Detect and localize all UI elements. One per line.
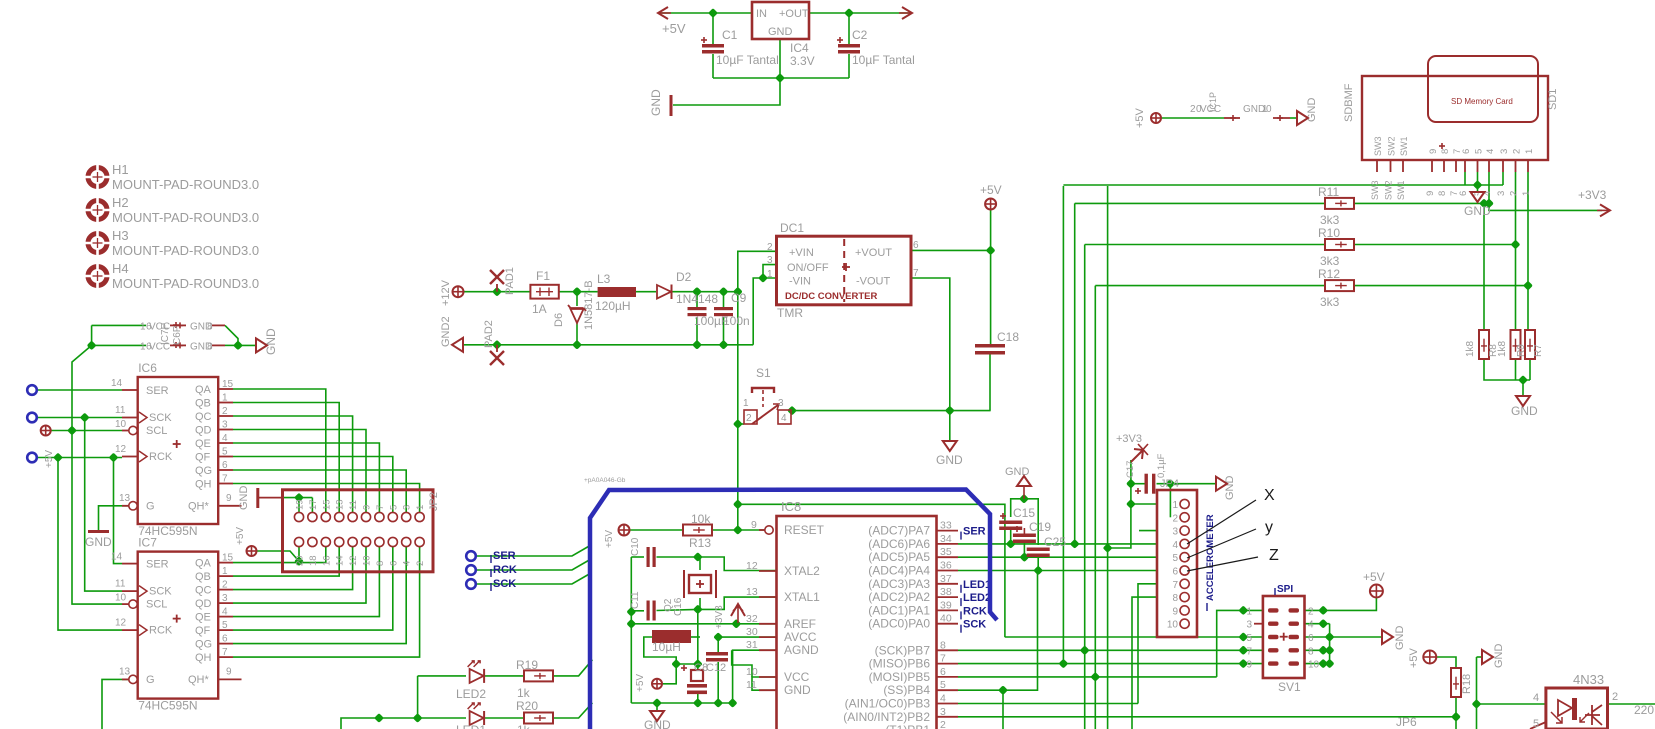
svg-text:R11: R11 [1318, 185, 1339, 199]
svg-text:12: 12 [348, 555, 359, 566]
svg-text:+12V: +12V [440, 279, 452, 306]
svg-text:(SCK)PB7: (SCK)PB7 [875, 643, 931, 657]
svg-text:31: 31 [746, 639, 758, 651]
svg-text:3: 3 [402, 505, 413, 510]
svg-text:L3: L3 [597, 272, 611, 286]
svg-text:PAD1: PAD1 [504, 267, 516, 295]
svg-text:5: 5 [388, 505, 399, 510]
svg-text:R20: R20 [516, 699, 538, 713]
svg-text:+5V: +5V [604, 530, 615, 548]
svg-text:+VOUT: +VOUT [855, 247, 892, 259]
svg-text:(ADC7)PA7: (ADC7)PA7 [868, 524, 930, 538]
svg-text:0,1µF: 0,1µF [1156, 453, 1167, 478]
svg-text:11: 11 [348, 500, 359, 510]
svg-text:SCK: SCK [149, 586, 172, 598]
svg-text:15: 15 [321, 499, 332, 510]
svg-text:16: 16 [321, 555, 332, 566]
svg-text:2: 2 [415, 561, 426, 566]
svg-text:R19: R19 [516, 658, 538, 672]
svg-text:SW3: SW3 [1370, 180, 1380, 200]
svg-text:R10: R10 [1318, 226, 1340, 240]
svg-text:1k: 1k [517, 686, 531, 700]
svg-text:GND: GND [784, 683, 811, 697]
svg-text:10: 10 [1308, 660, 1320, 671]
svg-text:QA: QA [195, 384, 212, 396]
svg-text:4: 4 [222, 607, 228, 618]
svg-text:C2: C2 [852, 28, 868, 42]
svg-text:RESET: RESET [784, 523, 825, 537]
svg-text:1: 1 [743, 398, 749, 409]
svg-text:LED1: LED1 [963, 579, 991, 591]
svg-text:+5V: +5V [662, 21, 686, 36]
svg-text:MOUNT-PAD-ROUND3.0: MOUNT-PAD-ROUND3.0 [112, 276, 259, 291]
svg-text:8: 8 [1172, 593, 1178, 604]
svg-text:9: 9 [751, 519, 757, 531]
svg-text:R13: R13 [689, 536, 711, 550]
svg-text:5: 5 [940, 679, 946, 691]
svg-text:GND2: GND2 [440, 316, 452, 347]
svg-text:14: 14 [111, 552, 123, 563]
svg-text:+5V: +5V [1408, 647, 1420, 668]
svg-text:RCK: RCK [493, 564, 517, 576]
svg-text:TMR: TMR [777, 306, 803, 320]
svg-text:(ADC6)PA6: (ADC6)PA6 [868, 537, 930, 551]
svg-text:(ADC2)PA2: (ADC2)PA2 [868, 590, 930, 604]
svg-text:2: 2 [1172, 513, 1178, 524]
svg-text:GND: GND [85, 535, 112, 549]
svg-text:MOUNT-PAD-ROUND3.0: MOUNT-PAD-ROUND3.0 [112, 210, 259, 225]
svg-text:C12: C12 [706, 662, 726, 674]
svg-text:6: 6 [1461, 149, 1472, 154]
svg-text:GND: GND [238, 486, 250, 511]
svg-text:XTAL1: XTAL1 [784, 590, 820, 604]
svg-text:0: 0 [1266, 104, 1272, 115]
svg-text:3: 3 [222, 593, 228, 604]
svg-text:1: 1 [415, 505, 426, 510]
svg-text:10: 10 [362, 555, 373, 566]
svg-text:1N5817-B: 1N5817-B [583, 280, 595, 330]
svg-text:IC6: IC6 [138, 361, 157, 375]
svg-text:33: 33 [940, 520, 952, 532]
svg-text:3: 3 [1499, 149, 1510, 154]
svg-text:QF: QF [195, 452, 211, 464]
svg-text:1A: 1A [532, 302, 547, 316]
svg-text:9: 9 [1425, 191, 1436, 196]
svg-text:+5V: +5V [980, 183, 1002, 197]
svg-text:3: 3 [1172, 527, 1178, 538]
svg-text:SW3: SW3 [1373, 136, 1383, 156]
svg-text:3: 3 [778, 398, 784, 409]
svg-text:12: 12 [115, 444, 127, 455]
svg-text:(AIN0/INT2)PB2: (AIN0/INT2)PB2 [843, 710, 930, 724]
svg-text:2: 2 [1612, 691, 1618, 703]
svg-text:10k: 10k [691, 512, 711, 526]
svg-text:H1: H1 [112, 162, 129, 177]
svg-text:(T1)PB1: (T1)PB1 [885, 723, 930, 729]
svg-text:AGND: AGND [784, 643, 819, 657]
svg-text:13: 13 [119, 493, 131, 504]
svg-text:+3V3: +3V3 [714, 605, 725, 629]
svg-text:IN: IN [756, 8, 767, 20]
svg-text:QB: QB [195, 571, 211, 583]
svg-text:7: 7 [222, 647, 228, 658]
svg-text:5: 5 [1172, 553, 1178, 564]
svg-text:+3V3: +3V3 [1578, 188, 1607, 202]
svg-text:9: 9 [1172, 606, 1178, 617]
svg-text:SCK: SCK [149, 412, 172, 424]
svg-text:SPI: SPI [1277, 584, 1293, 595]
svg-text:120µH: 120µH [595, 299, 631, 313]
svg-text:38: 38 [940, 586, 952, 598]
svg-text:2: 2 [1509, 191, 1520, 196]
svg-text:10: 10 [746, 666, 758, 678]
svg-text:+VIN: +VIN [789, 247, 814, 259]
svg-text:2: 2 [940, 719, 946, 729]
svg-text:R18: R18 [1461, 674, 1473, 694]
svg-text:4: 4 [1533, 692, 1539, 704]
svg-text:SCL: SCL [146, 599, 167, 611]
svg-text:GND: GND [1394, 626, 1406, 651]
svg-text:13: 13 [119, 667, 131, 678]
svg-text:QB: QB [195, 398, 211, 410]
svg-text:-VIN: -VIN [789, 276, 811, 288]
svg-text:SW2: SW2 [1384, 180, 1394, 200]
svg-text:5: 5 [1533, 718, 1539, 729]
svg-text:+pA0A046-Gb: +pA0A046-Gb [584, 477, 626, 484]
svg-text:3.3V: 3.3V [790, 54, 815, 68]
svg-text:13: 13 [746, 586, 758, 598]
svg-text:D2: D2 [676, 270, 692, 284]
svg-text:(SS)PB4: (SS)PB4 [883, 683, 930, 697]
svg-text:5: 5 [1246, 633, 1252, 644]
svg-text:8: 8 [1440, 149, 1451, 154]
svg-text:G: G [146, 501, 155, 513]
svg-text:(ADC3)PA3: (ADC3)PA3 [868, 577, 930, 591]
svg-text:1: 1 [1521, 191, 1532, 196]
svg-text:14: 14 [335, 555, 346, 566]
svg-text:4: 4 [222, 433, 228, 444]
svg-text:40: 40 [940, 613, 952, 625]
svg-text:SD1: SD1 [1547, 89, 1559, 110]
svg-text:100n: 100n [723, 314, 750, 328]
svg-text:C11: C11 [630, 591, 641, 609]
svg-text:X: X [1264, 487, 1275, 504]
svg-text:5: 5 [1474, 149, 1485, 154]
svg-text:3k3: 3k3 [1320, 295, 1340, 309]
svg-text:QD: QD [195, 425, 212, 437]
svg-text:C25: C25 [1044, 535, 1066, 549]
svg-text:39: 39 [940, 599, 952, 611]
svg-text:SCK: SCK [963, 619, 986, 631]
svg-text:1: 1 [222, 566, 228, 577]
svg-text:QE: QE [195, 438, 211, 450]
svg-text:10: 10 [115, 419, 127, 430]
svg-text:SER: SER [493, 550, 516, 562]
svg-text:C9: C9 [731, 291, 747, 305]
svg-text:SW2: SW2 [1387, 136, 1397, 156]
svg-text:32: 32 [746, 613, 758, 625]
svg-text:9: 9 [226, 493, 232, 504]
svg-text:GND: GND [936, 453, 963, 467]
svg-text:QE: QE [195, 612, 211, 624]
svg-text:3: 3 [1246, 620, 1252, 631]
svg-text:SER: SER [963, 526, 986, 538]
svg-text:RCK: RCK [963, 605, 987, 617]
svg-text:QC: QC [195, 411, 212, 423]
svg-text:3k3: 3k3 [1320, 254, 1340, 268]
svg-text:QH*: QH* [188, 501, 210, 513]
svg-text:15: 15 [222, 379, 234, 390]
svg-text:R7: R7 [1533, 344, 1544, 357]
svg-text:6: 6 [388, 561, 399, 566]
svg-text:QH: QH [195, 479, 212, 491]
svg-text:SCL: SCL [146, 425, 167, 437]
svg-text:IC7: IC7 [138, 536, 157, 550]
svg-text:F1: F1 [536, 269, 550, 283]
svg-text:QD: QD [195, 598, 212, 610]
svg-text:QG: QG [195, 639, 212, 651]
svg-text:4: 4 [402, 561, 413, 566]
svg-text:1k: 1k [517, 723, 531, 729]
svg-text:7: 7 [1172, 580, 1178, 591]
svg-text:7: 7 [375, 505, 386, 510]
svg-text:C18: C18 [997, 330, 1019, 344]
svg-text:GND: GND [1224, 476, 1236, 501]
svg-text:(ADC1)PA1: (ADC1)PA1 [868, 603, 930, 617]
svg-text:10: 10 [115, 593, 127, 604]
svg-text:QC: QC [195, 585, 212, 597]
svg-text:1: 1 [767, 269, 773, 280]
svg-text:8: 8 [375, 561, 386, 566]
svg-text:(AIN1/OC0)PB3: (AIN1/OC0)PB3 [845, 697, 931, 711]
svg-text:34: 34 [940, 533, 952, 545]
svg-text:6: 6 [222, 634, 228, 645]
svg-text:R9: R9 [1516, 344, 1527, 357]
svg-text:C19: C19 [1029, 520, 1051, 534]
svg-text:8: 8 [1437, 191, 1448, 196]
svg-text:H3: H3 [112, 228, 129, 243]
svg-text:12: 12 [746, 560, 758, 572]
svg-text:4: 4 [1308, 620, 1314, 631]
svg-text:GND: GND [264, 328, 278, 355]
svg-text:+5V: +5V [635, 674, 646, 692]
svg-text:9: 9 [1246, 660, 1252, 671]
svg-text:SW1: SW1 [1396, 180, 1406, 200]
svg-text:2: 2 [222, 580, 228, 591]
svg-text:GND: GND [1511, 404, 1538, 418]
svg-text:4: 4 [940, 693, 946, 705]
svg-text:SCK: SCK [493, 578, 516, 590]
svg-text:11: 11 [115, 579, 126, 590]
svg-text:20: 20 [295, 555, 306, 566]
svg-text:7: 7 [1246, 646, 1252, 657]
svg-text:SER: SER [146, 559, 169, 571]
svg-text:35: 35 [940, 546, 952, 558]
svg-text:GND: GND [1464, 204, 1491, 218]
svg-text:ON/OFF: ON/OFF [787, 262, 829, 274]
svg-text:IC8: IC8 [781, 499, 801, 514]
svg-text:QH*: QH* [188, 674, 210, 686]
svg-text:15: 15 [222, 553, 234, 564]
svg-text:SW1: SW1 [1399, 136, 1409, 156]
svg-text:C16: C16 [673, 597, 684, 616]
svg-text:(MISO)PB6: (MISO)PB6 [869, 657, 931, 671]
svg-text:S1: S1 [756, 366, 771, 380]
svg-text:5: 5 [222, 447, 228, 458]
svg-text:220: 220 [1634, 703, 1654, 717]
svg-text:AREF: AREF [784, 617, 816, 631]
svg-text:(MOSI)PB5: (MOSI)PB5 [869, 670, 931, 684]
svg-text:IC1P: IC1P [1208, 92, 1218, 112]
svg-text:+5V: +5V [1134, 107, 1146, 128]
svg-text:2: 2 [746, 413, 752, 424]
svg-text:AVCC: AVCC [784, 630, 817, 644]
svg-text:LED2: LED2 [963, 592, 991, 604]
svg-text:IC7P: IC7P [160, 322, 171, 345]
svg-text:3: 3 [767, 255, 773, 266]
svg-text:1: 1 [1172, 500, 1178, 511]
svg-text:9: 9 [362, 505, 373, 510]
svg-text:GND: GND [1493, 644, 1505, 669]
svg-text:H4: H4 [112, 261, 129, 276]
svg-text:6: 6 [1458, 191, 1469, 196]
svg-text:3k3: 3k3 [1320, 213, 1340, 227]
svg-text:4N33: 4N33 [1573, 672, 1604, 687]
svg-text:+5V: +5V [44, 450, 55, 468]
svg-text:SD Memory Card: SD Memory Card [1451, 97, 1513, 106]
svg-text:RCK: RCK [149, 625, 173, 637]
svg-text:6: 6 [940, 666, 946, 678]
svg-text:8: 8 [207, 341, 213, 352]
svg-text:2: 2 [222, 406, 228, 417]
svg-text:30: 30 [746, 626, 758, 638]
svg-text:PAD2: PAD2 [483, 320, 495, 348]
svg-text:+3V3: +3V3 [1116, 433, 1142, 445]
svg-text:y: y [1265, 519, 1273, 536]
svg-text:4: 4 [1485, 149, 1496, 154]
svg-text:QG: QG [195, 465, 212, 477]
svg-text:Z: Z [1269, 547, 1279, 564]
svg-text:(ADC0)PA0: (ADC0)PA0 [868, 617, 930, 631]
svg-text:4: 4 [781, 413, 787, 424]
svg-text:36: 36 [940, 560, 952, 572]
svg-text:C15: C15 [1013, 506, 1035, 520]
svg-text:+5V: +5V [1363, 570, 1385, 584]
svg-text:7: 7 [940, 653, 946, 665]
svg-text:QF: QF [195, 625, 211, 637]
svg-text:6: 6 [222, 460, 228, 471]
svg-text:LED1: LED1 [456, 723, 486, 729]
svg-text:RCK: RCK [149, 451, 173, 463]
svg-text:C1: C1 [722, 28, 738, 42]
svg-text:C17: C17 [1125, 461, 1136, 478]
svg-text:1k8: 1k8 [1497, 340, 1508, 357]
svg-text:11: 11 [746, 679, 757, 691]
svg-text:IC4: IC4 [790, 41, 809, 55]
svg-text:SV1: SV1 [1278, 680, 1301, 694]
svg-text:3: 3 [222, 420, 228, 431]
svg-text:2: 2 [767, 242, 773, 253]
svg-text:MOUNT-PAD-ROUND3.0: MOUNT-PAD-ROUND3.0 [112, 177, 259, 192]
svg-text:D6: D6 [553, 313, 565, 327]
svg-text:JP6: JP6 [1396, 715, 1417, 729]
svg-text:GND: GND [649, 89, 663, 116]
svg-text:VCC: VCC [784, 670, 810, 684]
svg-text:7: 7 [222, 474, 228, 485]
svg-text:C6P: C6P [172, 325, 183, 345]
svg-text:8: 8 [1308, 646, 1314, 657]
svg-text:ACCELEROMETER: ACCELEROMETER [1205, 514, 1216, 601]
svg-text:JP4: JP4 [1160, 478, 1179, 490]
svg-text:10µF Tantal: 10µF Tantal [716, 53, 779, 67]
svg-text:10µF Tantal: 10µF Tantal [852, 53, 915, 67]
svg-text:1: 1 [222, 393, 228, 404]
svg-text:3: 3 [940, 706, 946, 718]
svg-text:6: 6 [1172, 567, 1178, 578]
svg-text:1: 1 [1246, 606, 1252, 617]
svg-text:LED2: LED2 [456, 687, 486, 701]
svg-text:10: 10 [1167, 620, 1179, 631]
svg-text:DC/DC CONVERTER: DC/DC CONVERTER [785, 291, 878, 302]
svg-text:QA: QA [195, 558, 212, 570]
svg-text:13: 13 [335, 499, 346, 510]
svg-text:GND: GND [768, 26, 793, 38]
svg-text:MOUNT-PAD-ROUND3.0: MOUNT-PAD-ROUND3.0 [112, 243, 259, 258]
svg-text:6: 6 [913, 240, 919, 251]
svg-text:9: 9 [226, 667, 232, 678]
svg-text:QH: QH [195, 652, 212, 664]
svg-text:G: G [146, 674, 155, 686]
svg-text:R12: R12 [1318, 267, 1340, 281]
svg-text:SER: SER [146, 385, 169, 397]
svg-text:2: 2 [1308, 606, 1314, 617]
svg-text:12: 12 [115, 618, 127, 629]
svg-text:1k8: 1k8 [1465, 340, 1476, 357]
svg-text:JP2: JP2 [428, 492, 440, 511]
svg-text:8: 8 [940, 639, 946, 651]
svg-text:1N4148: 1N4148 [676, 292, 718, 306]
svg-text:11: 11 [115, 405, 126, 416]
svg-text:7: 7 [913, 268, 919, 279]
svg-text:19: 19 [295, 499, 306, 510]
svg-text:H2: H2 [112, 195, 129, 210]
svg-text:1: 1 [1524, 149, 1535, 154]
svg-text:+OUT: +OUT [779, 8, 809, 20]
svg-text:10µH: 10µH [652, 640, 681, 654]
svg-text:2: 2 [1512, 149, 1523, 154]
svg-text:-VOUT: -VOUT [856, 276, 891, 288]
svg-text:(ADC5)PA5: (ADC5)PA5 [868, 550, 930, 564]
svg-text:4: 4 [1172, 540, 1178, 551]
svg-text:74HC595N: 74HC595N [138, 699, 197, 713]
svg-text:(ADC4)PA4: (ADC4)PA4 [868, 564, 930, 578]
svg-text:3: 3 [1496, 191, 1507, 196]
svg-text:XTAL2: XTAL2 [784, 564, 820, 578]
svg-text:14: 14 [111, 378, 123, 389]
svg-text:GND: GND [1005, 466, 1030, 478]
svg-text:18: 18 [308, 555, 319, 566]
svg-text:DC1: DC1 [780, 221, 804, 235]
svg-text:+5V: +5V [235, 527, 246, 545]
svg-text:5: 5 [222, 620, 228, 631]
svg-text:37: 37 [940, 573, 952, 585]
svg-text:9: 9 [1428, 149, 1439, 154]
svg-text:17: 17 [308, 499, 319, 510]
svg-text:6: 6 [1308, 633, 1314, 644]
svg-text:SDBMF: SDBMF [1343, 83, 1355, 122]
svg-text:8: 8 [207, 321, 213, 332]
svg-text:C10: C10 [630, 537, 641, 556]
